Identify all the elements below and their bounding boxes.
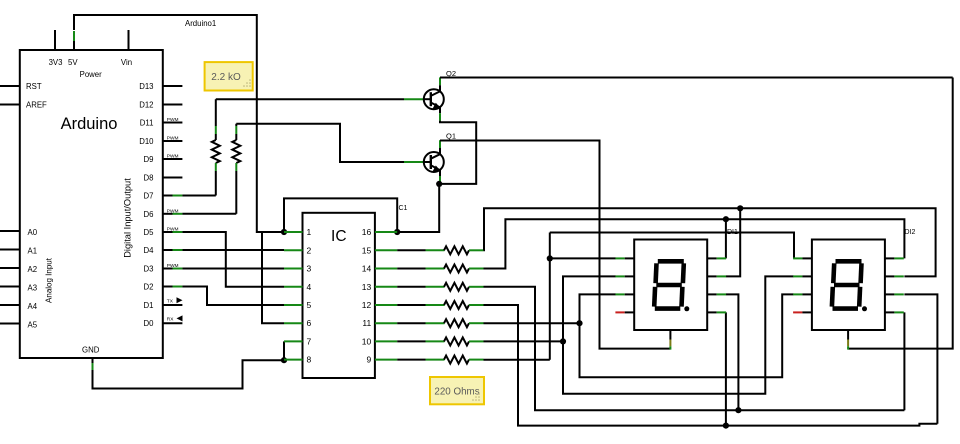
DI1 digit 8 <box>658 259 684 264</box>
pin 5V (connected) <box>73 41 75 50</box>
wire loop C1 over IC (pin1 to pin16) <box>284 198 397 232</box>
svg-text:DI1: DI1 <box>727 229 738 236</box>
svg-text:D1: D1 <box>144 301 154 310</box>
pin D10 <box>163 140 183 142</box>
svg-text:10: 10 <box>362 336 372 346</box>
wire DI1.L2 to DI2.L2 <box>563 276 794 393</box>
svg-text:D3: D3 <box>144 265 154 274</box>
IC pin 8 <box>284 359 303 361</box>
svg-text:A4: A4 <box>28 302 38 311</box>
svg-text:Vin: Vin <box>121 58 132 67</box>
resistor 220ohm R7 row 5 <box>397 322 425 324</box>
svg-text:TX: TX <box>167 298 174 304</box>
resistor R2 2.2k vertical <box>235 124 237 126</box>
IC pin 9 <box>375 359 397 361</box>
pin A2 <box>0 267 20 269</box>
svg-text:Analog Input: Analog Input <box>45 257 54 303</box>
IC pin 6 <box>284 322 303 324</box>
wire Q2 collector rail <box>440 77 953 79</box>
svg-text:PWM: PWM <box>167 136 179 142</box>
DI2 left pin 3 <box>793 293 802 295</box>
svg-text:A1: A1 <box>28 247 38 256</box>
svg-text:1: 1 <box>307 227 312 237</box>
IC pin 3 <box>284 268 303 270</box>
svg-text:PWM: PWM <box>167 263 179 269</box>
junction dot DI1.L3 net <box>576 320 582 326</box>
svg-text:Arduino1: Arduino1 <box>185 19 216 28</box>
wire pin16 to emitter junction <box>397 184 439 232</box>
pin A1 <box>0 249 20 251</box>
junction dot emitters <box>436 181 442 187</box>
DI2 right pin 1 <box>885 257 895 259</box>
svg-text:D9: D9 <box>144 155 154 164</box>
7-segment display DI2 body <box>812 240 885 331</box>
DI1 right pin 4 <box>707 311 717 313</box>
wire Q2 collector down right edge <box>848 78 953 349</box>
svg-text:PWM: PWM <box>167 154 179 160</box>
wire DI2.R3 over and down <box>904 294 937 423</box>
pin RST <box>0 85 20 87</box>
wire Q2 emitter to junction <box>439 121 476 184</box>
note 2.2 kO <box>205 62 253 90</box>
DI1 right pin 1 <box>707 257 717 259</box>
svg-text:D7: D7 <box>144 192 154 201</box>
resistor 220ohm R9 row 7 <box>397 359 425 361</box>
svg-text:D11: D11 <box>140 119 154 128</box>
wire R6 (pin12) bottom rail to DI2.R3 <box>484 305 938 426</box>
wire R1 to Q2 base <box>216 98 404 100</box>
junction dot rail425/DI1.R4 <box>723 423 729 429</box>
pin AREF <box>0 104 20 106</box>
transistor Q1 <box>424 152 444 172</box>
svg-text:A0: A0 <box>28 228 38 237</box>
DI2 right pin 3 <box>885 293 895 295</box>
wire DI1.R4 down to rail425 <box>725 312 727 425</box>
svg-text:RST: RST <box>26 82 42 91</box>
wire D7 to resistor R1 <box>182 195 215 197</box>
IC pin 13 <box>375 286 397 288</box>
pin D0 <box>163 322 183 324</box>
svg-text:A5: A5 <box>28 321 38 330</box>
resistor 220ohm R4 row 2 <box>397 268 425 270</box>
pin D2 (connected) <box>163 286 173 288</box>
svg-text:2: 2 <box>307 245 312 255</box>
svg-text:9: 9 <box>366 355 371 365</box>
IC pin 12 <box>375 304 397 306</box>
DI2 right pin 4 <box>885 311 895 313</box>
wire R4 (pin14) rail H2 to DI2.R1 <box>484 219 905 268</box>
pin D4 (connected) <box>163 249 173 251</box>
DI1 left pin 3 <box>615 293 624 295</box>
svg-text:D12: D12 <box>139 101 153 110</box>
junction dot at IC pin1 <box>281 229 287 235</box>
DI2 left pin 2 <box>793 275 802 277</box>
svg-text:PWM: PWM <box>167 208 179 214</box>
DI1 right pin 3 <box>707 293 717 295</box>
resistor 220ohm R8 row 6 <box>397 340 425 342</box>
wire D2 to IC pin 5 <box>182 287 284 306</box>
junction dot DI1.L1 <box>547 255 553 261</box>
DI1 common pin (bottom) <box>669 330 671 340</box>
pin A0 <box>0 230 20 232</box>
svg-text:4: 4 <box>307 282 312 292</box>
pin A4 <box>0 304 20 306</box>
pin D7 (connected) <box>163 195 173 197</box>
svg-text:Q1: Q1 <box>446 132 456 141</box>
resistor R1 2.2k vertical <box>215 99 217 126</box>
svg-text:D13: D13 <box>139 82 153 91</box>
DI1 left pin 4 (unconnected, red) <box>615 311 624 313</box>
IC U1 body <box>303 213 375 378</box>
svg-text:11: 11 <box>362 318 371 328</box>
wire R9 (pin9) to L1 net vertical <box>484 359 550 361</box>
svg-text:PWM: PWM <box>167 227 179 233</box>
svg-text:DI2: DI2 <box>905 229 916 236</box>
wire D4 to IC pin 2 <box>182 249 284 251</box>
wire DI1.R1 up to H2 <box>725 219 727 258</box>
svg-text:13: 13 <box>362 282 372 292</box>
svg-text:14: 14 <box>362 264 372 274</box>
wire R8 (pin10) to DI1.L2 junction <box>484 340 564 342</box>
pin D1 <box>163 304 183 306</box>
svg-text:D6: D6 <box>144 210 154 219</box>
svg-text:D5: D5 <box>144 228 155 237</box>
junction dot DI1.L2 net <box>560 338 566 344</box>
pin GND (connected) <box>92 358 94 363</box>
note 220 Ohms <box>430 377 484 404</box>
resistor 220ohm R6 row 4 <box>397 304 425 306</box>
wire D5 to IC pin 4 <box>182 232 284 287</box>
svg-text:GND: GND <box>82 346 100 355</box>
svg-text:Digital Input/Output: Digital Input/Output <box>123 178 133 258</box>
IC pin 10 <box>375 340 397 342</box>
pin D5 (connected) <box>163 231 173 233</box>
svg-text:Arduino: Arduino <box>61 115 118 133</box>
svg-text:15: 15 <box>362 245 372 255</box>
pin Vin <box>128 30 130 50</box>
svg-text:7: 7 <box>307 336 312 346</box>
svg-text:A2: A2 <box>28 265 38 274</box>
DI2 digit 8 <box>836 259 862 264</box>
7-segment display DI1 body <box>634 240 707 331</box>
DI2 left pin 1 <box>793 257 802 259</box>
IC pin 4 <box>284 286 303 288</box>
IC pin 5 <box>284 304 303 306</box>
svg-text:AREF: AREF <box>26 101 47 110</box>
svg-text:8: 8 <box>307 355 312 365</box>
svg-text:D8: D8 <box>144 174 154 183</box>
wire DI1.L3 to DI2.L3 <box>580 294 794 377</box>
svg-text:D4: D4 <box>144 246 155 255</box>
IC pin 1 <box>284 231 303 233</box>
svg-text:PWM: PWM <box>167 117 179 123</box>
pin D6 (connected) <box>163 213 173 215</box>
DI1 right pin 2 <box>707 275 717 277</box>
wire DI1.R2 up to H1 <box>726 208 740 276</box>
IC pin 16 <box>375 231 397 233</box>
wire L1 net over DI1 to DI2.L1 <box>550 233 794 259</box>
wire 5V to top rail to IC pin 1 area <box>74 15 284 232</box>
wire L1 net vertical <box>549 233 551 360</box>
resistor 220ohm R3 row 1 <box>397 249 425 251</box>
DI1 decimal point <box>684 306 689 311</box>
wire R3 (pin15) top rail H1 to DI2.R2 <box>484 208 936 276</box>
wire DI2.R4 down to rail 410 <box>903 312 905 410</box>
wire DI1.R3 down to rail410 <box>726 294 739 410</box>
svg-text:D2: D2 <box>144 283 154 292</box>
IC pin 7 <box>284 340 303 342</box>
pin D3 (connected) <box>163 268 173 270</box>
junction dot rail410/DI1.R3 <box>735 407 741 413</box>
svg-text:Power: Power <box>80 70 103 79</box>
DI1 left pin 1 <box>615 257 624 259</box>
wire D6 to resistor R2 <box>182 213 236 215</box>
DI2 right pin 2 <box>885 275 895 277</box>
DI1 left pin 2 <box>615 275 624 277</box>
svg-text:RX: RX <box>167 317 174 323</box>
svg-text:D10: D10 <box>139 137 154 146</box>
wire GND to IC pin 8 <box>93 360 285 388</box>
junction dot at IC pin8 <box>281 357 287 363</box>
svg-text:5V: 5V <box>68 58 78 67</box>
svg-text:C1: C1 <box>399 205 408 212</box>
svg-text:3: 3 <box>307 264 312 274</box>
svg-text:12: 12 <box>362 300 372 310</box>
pin D11 <box>163 122 183 124</box>
IC pin 15 <box>375 249 397 251</box>
svg-text:IC: IC <box>331 228 347 245</box>
svg-text:5: 5 <box>307 300 312 310</box>
pin D13 <box>163 85 183 87</box>
wire IC pin7 to pin8 junction <box>283 341 285 360</box>
IC pin 11 <box>375 322 397 324</box>
pin A5 <box>0 323 20 325</box>
wire R5 (pin13) bottom rail to DI2.R4 <box>484 287 905 410</box>
transistor Q2 <box>424 89 444 109</box>
svg-text:2.2 kO: 2.2 kO <box>211 72 241 83</box>
DI2 common pin (bottom) <box>847 330 849 340</box>
DI2 decimal point <box>862 306 867 311</box>
svg-text:6: 6 <box>307 318 312 328</box>
svg-text:16: 16 <box>362 227 372 237</box>
wire Q1 collector to DI1 common <box>440 141 670 349</box>
wire junction to DI1.L1 pin <box>550 257 616 259</box>
svg-text:220 Ohms: 220 Ohms <box>434 387 479 398</box>
junction dot at IC pin16 <box>394 229 400 235</box>
junction dot H1/DI1.R2 <box>737 205 743 211</box>
pin D12 <box>163 104 183 106</box>
Arduino board Arduino1 body <box>20 50 163 358</box>
wire R7 (pin11) to DI1.L3 junction <box>484 322 580 324</box>
svg-text:A3: A3 <box>28 284 38 293</box>
pin A3 <box>0 286 20 288</box>
IC pin 14 <box>375 268 397 270</box>
pin 3V3 <box>54 30 56 50</box>
svg-text:3V3: 3V3 <box>49 58 63 67</box>
wire R2 to Q1 base <box>236 124 404 162</box>
pin D8 <box>163 177 183 179</box>
junction dot H2/DI1.R1 <box>723 216 729 222</box>
wire D3 to IC pin 3 <box>182 268 284 270</box>
DI2 left pin 4 (unconnected, red) <box>793 311 802 313</box>
pin D9 <box>163 158 183 160</box>
IC pin 2 <box>284 249 303 251</box>
resistor 220ohm R5 row 3 <box>397 286 425 288</box>
wire pin1 junction down to IC pin 6 <box>262 232 284 323</box>
svg-text:D0: D0 <box>144 319 155 328</box>
